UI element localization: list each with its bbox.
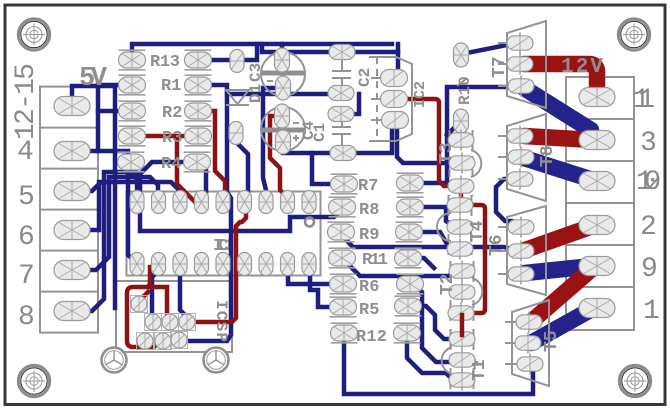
resistor R13 — [119, 50, 146, 70]
transistor T4 outline — [449, 195, 472, 259]
svg-text:C2: C2 — [356, 68, 374, 87]
mounting hole BL — [18, 365, 49, 396]
wire: branch to IC2.pin1 — [395, 52, 398, 77]
wire red: T3.pin3 to T4.pin1 under pads — [459, 186, 464, 205]
wire: IC1 to R5.left — [310, 270, 336, 307]
wire: R1.right down to ICSP — [184, 85, 231, 341]
resistor R4 — [118, 152, 145, 172]
wire red: T2.pin3 to T1.pin1 stub — [460, 315, 465, 335]
wire: R8.right to T4.pin2 — [410, 207, 458, 227]
svg-text:R12: R12 — [356, 328, 387, 347]
wire: R11.right stub — [408, 258, 434, 268]
resistor R1 — [119, 75, 146, 95]
wire: ICSP blue 2 — [180, 270, 187, 317]
right connector X2 silkscreen box — [566, 77, 634, 330]
svg-text:5V: 5V — [79, 64, 108, 94]
wire: top bus R13.left to C2/IC2 — [132, 44, 392, 60]
svg-text:4: 4 — [17, 137, 34, 168]
wire: R7.right up to T7.pin3 — [410, 87, 514, 183]
svg-text:C3: C3 — [247, 63, 265, 82]
mounting hole TL — [18, 19, 49, 50]
wire red: T4.pin1 to T2.pin3 — [461, 205, 485, 313]
svg-text:3: 3 — [640, 128, 657, 159]
transistor T8 outline — [507, 114, 546, 201]
capacitor C4 outline — [261, 107, 305, 151]
wire: R1.left stub — [98, 85, 132, 151]
wire: R5.right to T1.pin1 — [408, 306, 450, 339]
wire red: IC2.pin2 to T3.pin2 — [408, 99, 454, 186]
svg-text:R9: R9 — [359, 226, 379, 245]
via left — [102, 348, 127, 373]
thick trace T6.2 to pad 2 — [525, 226, 593, 250]
wire red: IC1 to ICSP loop — [127, 267, 160, 347]
IC1 silkscreen box — [127, 192, 321, 276]
wire: R4 net — [132, 162, 197, 196]
resistor R8 — [329, 197, 356, 217]
left connector X1 silkscreen box — [40, 87, 98, 333]
wire: pad5 diag — [72, 184, 99, 191]
svg-text:12V: 12V — [561, 56, 603, 79]
svg-text:9: 9 — [641, 254, 658, 285]
12V thick trace T7.2 to pad 11 — [524, 64, 597, 90]
svg-text:T5: T5 — [542, 330, 562, 352]
svg-text:R2: R2 — [162, 104, 182, 123]
wire: D1.bottom to IC1 pad6 — [236, 142, 248, 197]
svg-text:12-15: 12-15 — [11, 63, 42, 140]
svg-text:T3: T3 — [437, 142, 457, 164]
svg-text:8: 8 — [18, 302, 35, 333]
ICSP header pads — [131, 296, 148, 313]
transistor T7 pads — [507, 33, 533, 54]
mounting hole TR — [618, 19, 649, 50]
IC1 top row pads — [130, 191, 144, 214]
svg-text:T8: T8 — [538, 145, 558, 167]
IC2 package outline — [369, 57, 412, 141]
svg-text:5: 5 — [18, 182, 35, 213]
svg-text:11: 11 — [633, 85, 655, 116]
connector X2 pads 11,3,10,2,9,1 — [579, 88, 615, 107]
svg-text:2: 2 — [640, 212, 657, 243]
capacitor C1 pads — [328, 107, 354, 122]
transistor T8 pads — [507, 126, 533, 147]
wire red: IC1 pad6 to ICSP — [191, 212, 246, 322]
wire: R12.left bottom bus to T5.pin3 — [344, 340, 533, 394]
transistor T5 outline — [512, 300, 549, 386]
wire: C4.bottom C1.bottom to IC2.pin3 — [283, 124, 392, 153]
wire: C2.bottom bus left — [227, 92, 341, 97]
resistor R6 — [330, 274, 357, 294]
label R10 zero slash — [457, 79, 466, 86]
thick trace T6.3 to pad 9 — [525, 266, 593, 273]
IC1 pin1 marker — [305, 218, 314, 227]
diode D1 symbol — [226, 90, 249, 105]
ICSP silkscreen box — [116, 281, 232, 352]
transistor T1 outline — [451, 329, 474, 390]
wire: R10.bottom diag — [447, 121, 461, 135]
resistor R2 — [119, 101, 146, 121]
svg-text:D1: D1 — [247, 84, 265, 103]
svg-text:T2: T2 — [438, 273, 458, 295]
svg-text:C1: C1 — [311, 123, 329, 142]
svg-text:T7: T7 — [490, 56, 510, 78]
transistor T3 pads — [448, 130, 474, 151]
wire: IC2.pin3 to T3.pin1 — [397, 126, 452, 163]
mounting hole BR — [619, 365, 650, 396]
transistor T6 outline — [507, 206, 546, 295]
wire: branch to C3.top — [280, 44, 285, 52]
wire: C3.bottom to IC1 pad — [263, 88, 283, 198]
resistor R9 — [328, 222, 355, 242]
wire red: ICSP branch — [141, 287, 170, 320]
wire: T8.pin3 to T6.pin1 — [496, 179, 521, 227]
wire: pad8 to IC1 pad1 — [72, 172, 137, 311]
svg-text:R8: R8 — [359, 201, 379, 220]
wire: R6.right to T1.pin2 — [410, 284, 452, 362]
wire: 5V pad to bundle — [72, 86, 115, 308]
thick trace T5.1 to pad 9 — [532, 267, 594, 321]
svg-text:R1: R1 — [161, 77, 181, 96]
transistor T2 pads — [449, 261, 475, 282]
wire: R7.left to C1 net — [312, 153, 344, 184]
capacitor C3 outline — [261, 52, 305, 96]
wire: R9.right stub — [409, 232, 447, 244]
transistor T3 outline — [450, 130, 473, 196]
wire: pad6 to IC1 pad3 — [72, 182, 180, 230]
C4 polarity marks — [293, 123, 299, 141]
capacitor C2 pads — [329, 45, 355, 60]
transistor T6 pads — [508, 217, 534, 238]
svg-text:R3: R3 — [162, 129, 182, 148]
svg-text:7: 7 — [18, 261, 35, 292]
wire red: R3 net to IC1 pad4 — [135, 136, 195, 202]
svg-text:T4: T4 — [468, 220, 488, 242]
capacitor C4 pads — [275, 104, 290, 128]
thick trace T5.2 to pad 1 — [531, 309, 592, 343]
wire: IC1 to R6.left — [288, 270, 336, 284]
wire: R10.top to T7.pin1 — [462, 44, 512, 54]
small polarity mark near T1 — [472, 359, 478, 366]
capacitor C2 plates — [332, 71, 351, 78]
wire: branch to C2.top — [262, 44, 398, 52]
thick trace T8.2 to pad 10 — [524, 158, 593, 180]
svg-text:R11: R11 — [362, 251, 388, 270]
svg-text:6: 6 — [18, 222, 35, 253]
wire: R11.left to T2.pin1 — [342, 258, 461, 276]
wire: ICSP blue 1 — [152, 270, 159, 317]
capacitor C3 pads — [275, 48, 290, 72]
C3 polarity marks — [267, 80, 273, 82]
IC2 pads — [381, 70, 408, 87]
diode D1 pads — [230, 50, 244, 73]
resistor R5 — [330, 297, 357, 317]
wire: IC1 internal to R8 — [140, 210, 342, 231]
wire: R4.right down to IC1 — [197, 162, 206, 198]
resistor R11 — [329, 248, 356, 268]
resistor R3 — [119, 126, 146, 146]
svg-text:IC2: IC2 — [412, 81, 429, 108]
transistor T7 outline — [507, 21, 546, 108]
transistor T1 pads — [449, 329, 475, 350]
connector X1 pads 12-15,4,5,6,7,8 — [54, 97, 90, 116]
svg-text:T6: T6 — [487, 234, 507, 256]
wire: R2.left stub — [98, 109, 131, 114]
svg-text:10: 10 — [636, 167, 661, 198]
svg-text:R5: R5 — [359, 301, 379, 320]
svg-text:R4: R4 — [161, 155, 181, 174]
transistor T2 outline — [451, 261, 474, 323]
wire: pad7 to IC1 pad2 — [72, 177, 158, 270]
svg-text:T1: T1 — [470, 359, 490, 381]
label 10 zero slash — [650, 177, 659, 187]
via right — [204, 348, 229, 373]
svg-text:R7: R7 — [358, 177, 378, 196]
thick trace T7.3 to pad 3 (bottom layer) — [524, 88, 591, 130]
svg-text:R13: R13 — [150, 53, 180, 72]
wire red: R2.right to IC1 pad5 — [199, 111, 225, 195]
resistor R10 pads — [454, 43, 469, 67]
IC1 bottom row pads — [130, 253, 144, 276]
transistor T4 pads — [447, 195, 473, 216]
wire: pad4 to IC1 — [72, 151, 137, 263]
wire: C1.top join — [341, 94, 359, 114]
wire: R13.right to D1.top — [198, 44, 257, 60]
resistor R12 — [331, 323, 358, 343]
wire: R12.right to T1.pin3 — [407, 338, 452, 379]
transistor T5 pads — [516, 312, 542, 333]
resistor R7 — [331, 174, 358, 194]
svg-text:ICSP: ICSP — [212, 300, 230, 342]
wire red: C4.top to IC1 pad8 — [270, 116, 287, 197]
svg-text:1: 1 — [643, 296, 660, 327]
thick trace T8.1 to pad 3 (top layer) — [524, 136, 593, 140]
wire: R9.left to T6.pin2 — [342, 233, 518, 251]
svg-text:R6: R6 — [359, 278, 379, 297]
capacitor C1 plates — [332, 127, 351, 134]
